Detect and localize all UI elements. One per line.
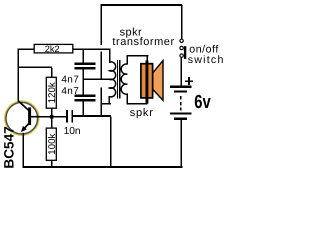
svg-text:4n7: 4n7 — [61, 86, 79, 97]
svg-text:10n: 10n — [64, 126, 81, 137]
svg-text:6v: 6v — [194, 92, 211, 113]
svg-text:switch: switch — [188, 54, 225, 66]
svg-text:BC547: BC547 — [1, 126, 16, 168]
svg-text:120k: 120k — [47, 82, 58, 103]
svg-text:4n7: 4n7 — [61, 74, 79, 85]
svg-text:transformer: transformer — [112, 36, 174, 48]
svg-text:2k2: 2k2 — [45, 44, 60, 54]
svg-text:100k: 100k — [47, 133, 58, 154]
svg-text:spkr: spkr — [130, 107, 154, 119]
